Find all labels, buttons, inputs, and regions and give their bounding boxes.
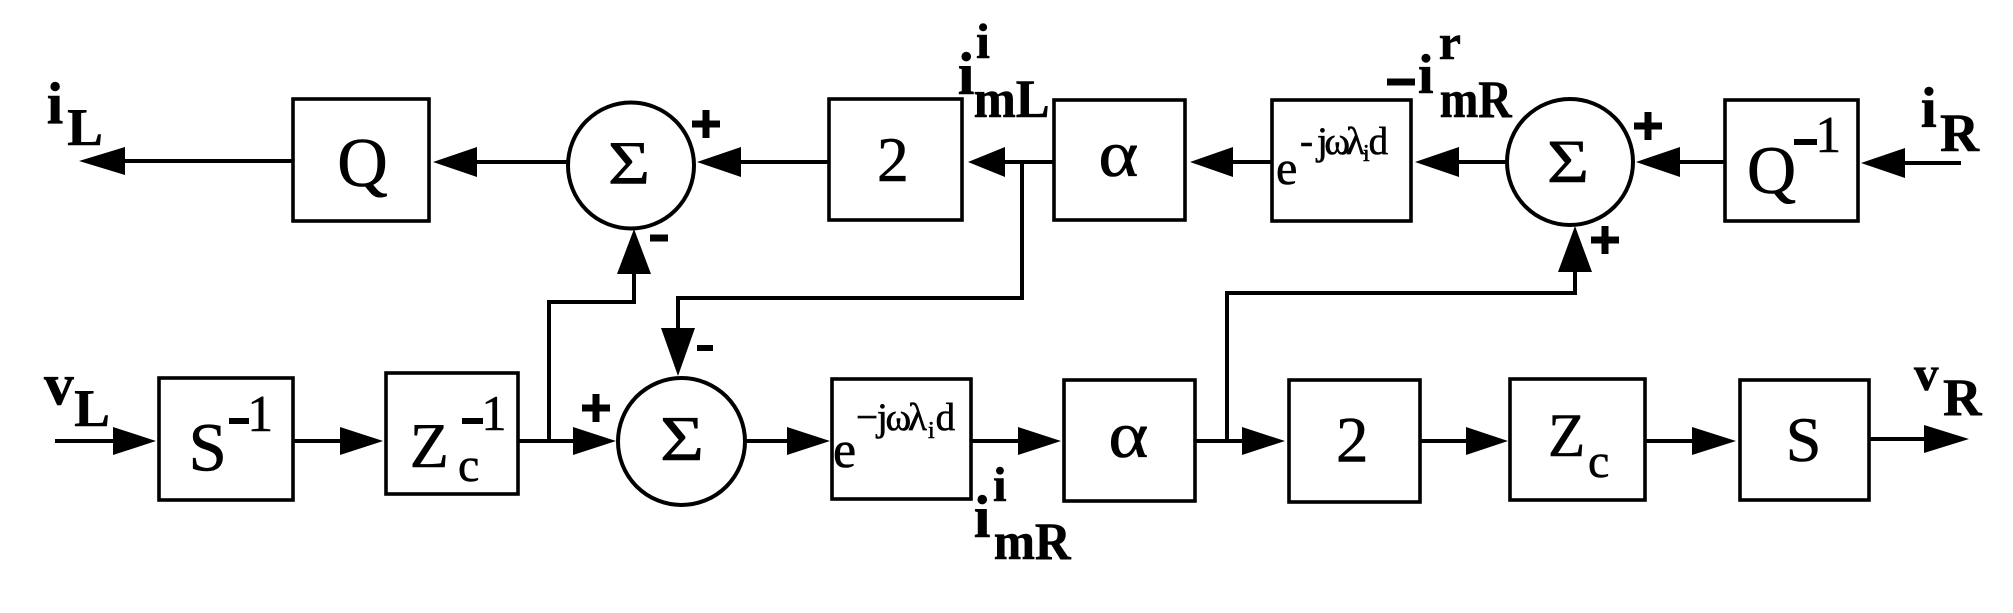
svg-text:i: i — [1418, 44, 1434, 106]
svg-text:Q: Q — [337, 125, 388, 202]
label v_L — [44, 352, 110, 438]
svg-text:i: i — [1921, 77, 1937, 140]
label -i_mR^r — [1387, 14, 1512, 129]
wire: i_R input arrow — [1861, 148, 1961, 178]
svg-text:v: v — [1914, 346, 1939, 401]
svg-text:−: − — [856, 396, 878, 439]
svg-text:r: r — [1439, 14, 1461, 70]
svg-text:c: c — [1588, 435, 1609, 488]
summer S2 — [1507, 99, 1633, 225]
label i_mR^i — [974, 457, 1072, 571]
svg-text:Σ: Σ — [1547, 129, 1589, 196]
plus sign at summer S2 bottom input — [1591, 226, 1619, 254]
summer S1 — [568, 103, 694, 229]
wire: tap from node between alpha and 2 down to summer S3 — [661, 162, 1022, 376]
svg-text:1: 1 — [247, 386, 273, 443]
wire: summer S2 to block e1 — [1415, 147, 1507, 177]
svg-text:2: 2 — [877, 124, 909, 195]
svg-text:i: i — [974, 484, 991, 550]
svg-text:d: d — [936, 396, 956, 439]
label i_mL^i — [958, 13, 1050, 129]
svg-text:-: - — [1300, 120, 1313, 163]
svg-text:i: i — [976, 13, 990, 69]
svg-text:α: α — [1108, 399, 1148, 472]
wire: block Q^-1 to summer S2 — [1636, 147, 1725, 177]
block alpha top — [1054, 100, 1185, 220]
wire: alpha bottom to block 2 bottom with node B junction — [1195, 427, 1285, 455]
svg-text:L: L — [67, 97, 103, 157]
label v_R — [1914, 346, 1983, 427]
minus sign at summer S1 bottom input — [650, 235, 668, 242]
wire: feedback from node B up into summer S2 — [1227, 226, 1592, 440]
wire: block alpha to block 2 — [968, 147, 1054, 177]
svg-text:i: i — [958, 41, 975, 107]
svg-text:2: 2 — [1336, 405, 1369, 477]
wire: block 2 to summer S1 — [697, 147, 829, 177]
block Zc — [1510, 379, 1645, 500]
wire: summer S3 to block e2 — [745, 427, 830, 455]
svg-text:1: 1 — [1815, 107, 1841, 164]
wire: block e2 to block alpha bottom — [971, 427, 1061, 455]
svg-text:L: L — [74, 378, 110, 438]
plus sign at summer S1 right input — [692, 110, 720, 138]
wire: Zc to block S — [1645, 427, 1736, 455]
svg-text:Q: Q — [1747, 132, 1796, 208]
minus sign at summer S3 top input — [697, 345, 713, 351]
wire: summer S1 to Q — [433, 147, 567, 177]
wire: feedback from node A up into summer S1 — [549, 229, 651, 440]
wire: block e1 to block alpha — [1190, 147, 1272, 177]
plus sign at summer S2 right input — [1634, 112, 1662, 140]
block Zc^-1 — [386, 373, 518, 494]
svg-text:Σ: Σ — [608, 131, 650, 198]
svg-text:S: S — [1786, 404, 1822, 475]
svg-text:Z: Z — [410, 410, 449, 481]
svg-text:S: S — [189, 410, 227, 486]
block 2 bottom — [1289, 380, 1420, 502]
svg-text:mL: mL — [974, 69, 1050, 129]
wire: v_L input arrow — [55, 427, 156, 455]
svg-text:mR: mR — [1440, 71, 1513, 129]
svg-text:Σ: Σ — [660, 403, 704, 474]
svg-text:e: e — [833, 422, 856, 479]
svg-text:λ: λ — [908, 396, 927, 439]
wire: S^-1 to Zc^-1 — [293, 427, 383, 455]
svg-text:1: 1 — [482, 385, 507, 441]
svg-text:e: e — [1276, 142, 1297, 195]
svg-text:i: i — [928, 418, 935, 444]
svg-text:R: R — [1940, 103, 1980, 163]
wire: v_R output arrow — [1869, 425, 1969, 453]
svg-text:mR: mR — [994, 513, 1072, 571]
svg-text:d: d — [1369, 120, 1389, 163]
wire: block 2 bottom to block Zc — [1420, 427, 1508, 455]
svg-text:i: i — [47, 70, 63, 136]
svg-text:α: α — [1098, 118, 1138, 191]
label i_L — [47, 70, 103, 157]
block Q^-1 — [1725, 100, 1858, 221]
label i_R — [1921, 77, 1980, 163]
block alpha bottom — [1064, 380, 1195, 501]
block Q — [293, 99, 429, 221]
block 2 top — [829, 99, 962, 220]
svg-text:v: v — [44, 352, 74, 418]
summer S3 — [618, 378, 745, 505]
block e^-jwld top — [1272, 100, 1411, 221]
block S — [1740, 380, 1869, 500]
block e^-jwld bottom — [832, 379, 971, 499]
wire: Zc^-1 to summer S3 with node A junction — [518, 427, 616, 455]
svg-text:R: R — [1943, 367, 1983, 427]
svg-text:i: i — [993, 457, 1007, 512]
svg-text:c: c — [458, 439, 479, 492]
svg-text:Z: Z — [1548, 403, 1585, 470]
wire: i_L output arrow from Q — [79, 147, 293, 175]
block S^-1 — [159, 378, 293, 500]
plus sign at summer S3 left input — [582, 394, 610, 422]
